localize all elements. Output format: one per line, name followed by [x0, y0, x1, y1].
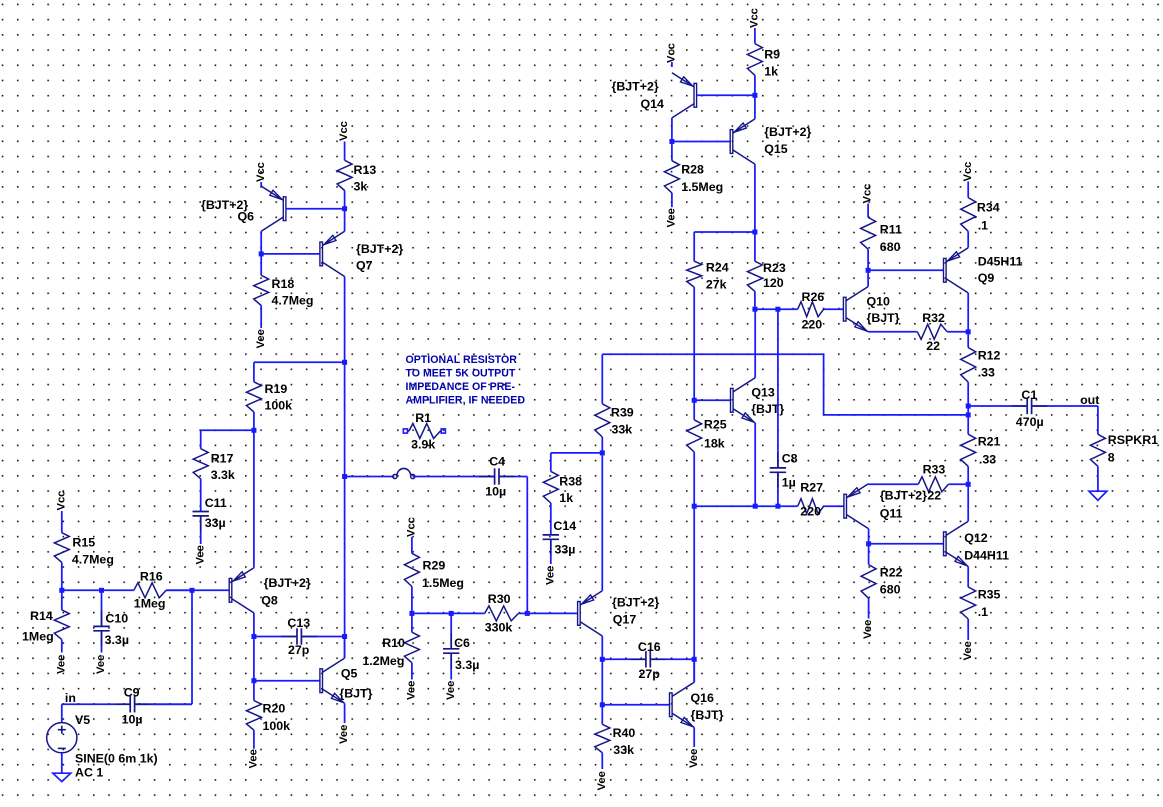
wire	[526, 477, 528, 614]
wire	[754, 164, 756, 232]
svg-text:27p: 27p	[639, 667, 661, 681]
svg-text:R27: R27	[800, 481, 823, 495]
wire	[601, 659, 603, 705]
svg-text:Vee: Vee	[666, 208, 678, 227]
svg-text:C14: C14	[553, 519, 576, 533]
resistor R14	[54, 590, 69, 652]
resistor R28	[664, 142, 679, 208]
svg-text:in: in	[65, 691, 76, 705]
svg-text:33µ: 33µ	[555, 543, 576, 557]
capacitor C13	[254, 628, 345, 644]
svg-text:Vee: Vee	[445, 681, 457, 700]
junction	[59, 588, 64, 593]
junction	[753, 504, 758, 509]
junction	[600, 702, 605, 707]
transistor Q7	[320, 231, 345, 276]
wire	[261, 253, 320, 255]
svg-text:1k: 1k	[559, 491, 573, 505]
junction	[251, 634, 256, 639]
svg-text:Q10: Q10	[867, 295, 891, 309]
wire	[286, 208, 345, 210]
wire	[602, 704, 669, 706]
resistor R19	[246, 362, 261, 430]
resistor R13	[337, 142, 352, 209]
resistor R26	[755, 302, 844, 317]
svg-text:{BJT+2}: {BJT+2}	[356, 242, 403, 256]
svg-text:3.9k: 3.9k	[411, 438, 435, 452]
svg-text:Q13: Q13	[751, 386, 775, 400]
wire	[754, 95, 756, 119]
svg-text:10µ: 10µ	[122, 713, 143, 727]
resistor R33	[869, 477, 969, 492]
wire	[967, 406, 969, 415]
junction	[669, 139, 674, 144]
svg-text:3.3µ: 3.3µ	[105, 633, 129, 647]
transistor Q6	[261, 186, 286, 231]
resistor R9	[747, 28, 762, 95]
svg-text:R32: R32	[922, 311, 945, 325]
svg-text:Q14: Q14	[641, 97, 665, 111]
resistor R38	[543, 453, 558, 535]
resistor R17	[193, 430, 208, 511]
svg-text:100k: 100k	[263, 719, 291, 733]
svg-text:R15: R15	[72, 536, 95, 550]
transistor Q12	[944, 521, 969, 566]
svg-text:{BJT}: {BJT}	[751, 402, 784, 416]
svg-text:C9: C9	[124, 686, 140, 700]
wire	[62, 589, 134, 591]
resistor R34	[961, 182, 976, 248]
svg-text:{BJT+2}: {BJT+2}	[612, 80, 659, 94]
resistor R39	[595, 354, 610, 453]
junction	[752, 230, 757, 235]
svg-text:1Meg: 1Meg	[134, 597, 166, 611]
svg-text:R28: R28	[681, 163, 704, 177]
wire	[166, 589, 229, 591]
svg-text:220: 220	[802, 318, 823, 332]
svg-text:18k: 18k	[704, 437, 725, 451]
wire	[868, 269, 943, 271]
svg-text:3.3k: 3.3k	[211, 468, 235, 482]
svg-text:R26: R26	[802, 290, 825, 304]
resistor RSPKR1	[1090, 434, 1105, 491]
wire	[602, 353, 823, 355]
wire	[201, 429, 254, 431]
wire	[254, 680, 320, 682]
wire	[260, 231, 262, 254]
svg-text:Q17: Q17	[613, 613, 637, 627]
resistor R29	[404, 537, 419, 613]
svg-text:220: 220	[800, 505, 821, 519]
junction	[966, 329, 971, 334]
wire	[868, 529, 870, 544]
wire	[601, 636, 603, 659]
wire	[413, 476, 494, 478]
svg-text:R33: R33	[923, 463, 946, 477]
svg-text:D44H11: D44H11	[964, 549, 1009, 563]
svg-text:R23: R23	[763, 261, 786, 275]
svg-text:R38: R38	[559, 475, 582, 489]
wire	[694, 231, 755, 233]
svg-text:22: 22	[927, 489, 941, 503]
wire	[693, 659, 695, 682]
svg-text:1.5Meg: 1.5Meg	[681, 180, 723, 194]
comment text (optional resistor note)	[406, 354, 526, 407]
svg-text:out: out	[1080, 393, 1099, 407]
capacitor C1	[968, 398, 1098, 414]
svg-text:27p: 27p	[288, 643, 310, 657]
svg-text:{BJT+2}: {BJT+2}	[880, 489, 927, 503]
svg-text:Q5: Q5	[341, 667, 358, 681]
svg-text:R24: R24	[706, 261, 729, 275]
svg-text:V5: V5	[75, 713, 90, 727]
ground (RSPKR1)	[1089, 491, 1107, 500]
svg-text:1.2Meg: 1.2Meg	[362, 654, 404, 668]
svg-text:4.7Meg: 4.7Meg	[72, 553, 114, 567]
svg-text:Q15: Q15	[764, 142, 788, 156]
svg-text:R39: R39	[611, 406, 634, 420]
svg-text:Vcc: Vcc	[55, 491, 67, 511]
svg-text:680: 680	[880, 583, 901, 597]
svg-text:Vee: Vee	[406, 681, 418, 700]
svg-text:R35: R35	[978, 588, 1001, 602]
capacitor C6	[443, 613, 459, 679]
junction	[775, 307, 780, 312]
svg-text:.33: .33	[979, 453, 996, 467]
transistor Q14	[672, 73, 697, 118]
transistor Q13	[731, 378, 756, 423]
svg-text:3k: 3k	[354, 180, 368, 194]
svg-text:Vee: Vee	[596, 771, 608, 790]
svg-text:4.7Meg: 4.7Meg	[272, 294, 314, 308]
junction	[525, 611, 530, 616]
svg-text:R20: R20	[263, 702, 286, 716]
svg-text:C1: C1	[1021, 388, 1037, 402]
svg-text:33k: 33k	[612, 423, 633, 437]
svg-text:33k: 33k	[613, 743, 634, 757]
junction	[752, 93, 757, 98]
svg-text:C11: C11	[205, 496, 227, 510]
svg-text:AMPLIFIER, IF NEEDED: AMPLIFIER, IF NEEDED	[406, 395, 526, 407]
svg-text:R30: R30	[488, 592, 511, 606]
svg-text:R22: R22	[880, 566, 903, 580]
svg-text:680: 680	[880, 240, 901, 254]
svg-text:Vcc: Vcc	[962, 162, 974, 182]
junction	[966, 412, 971, 417]
svg-text:R40: R40	[613, 726, 636, 740]
wire	[697, 94, 755, 96]
wire	[61, 511, 63, 533]
ground (V5)	[53, 773, 71, 781]
wire	[254, 361, 345, 363]
wire	[61, 704, 63, 723]
svg-text:Vee: Vee	[338, 725, 350, 744]
svg-text:10µ: 10µ	[485, 485, 506, 499]
resistor R32	[868, 324, 968, 339]
svg-text:{BJT}: {BJT}	[867, 311, 900, 325]
svg-text:R21: R21	[978, 435, 1001, 449]
svg-text:.1: .1	[978, 219, 988, 233]
wire	[693, 287, 695, 420]
wire hop (optional resistor jumper)	[393, 474, 397, 478]
svg-text:C6: C6	[454, 636, 470, 650]
svg-text:100k: 100k	[265, 399, 293, 413]
svg-text:R17: R17	[211, 452, 234, 466]
svg-text:8: 8	[1108, 451, 1115, 465]
svg-text:Vcc: Vcc	[338, 121, 350, 141]
junction	[342, 634, 347, 639]
wire	[344, 277, 346, 363]
wire	[344, 637, 346, 659]
svg-text:Vee: Vee	[962, 641, 974, 660]
wire	[869, 543, 944, 545]
svg-text:R12: R12	[978, 349, 1001, 363]
junction	[692, 504, 697, 509]
svg-text:Vee: Vee	[55, 655, 67, 674]
resistor R40	[595, 705, 610, 769]
svg-text:SINE(0 6m 1k): SINE(0 6m 1k)	[75, 752, 158, 766]
svg-text:{BJT+2}: {BJT+2}	[764, 125, 811, 139]
svg-text:R11: R11	[880, 223, 902, 237]
svg-text:Vcc: Vcc	[666, 43, 678, 63]
wire	[260, 182, 262, 187]
junction	[752, 307, 757, 312]
resistor R22	[861, 544, 876, 619]
wire	[61, 753, 63, 773]
transistor Q8	[229, 568, 254, 613]
svg-text:R25: R25	[704, 418, 727, 432]
svg-text:R29: R29	[423, 559, 446, 573]
wire	[412, 612, 451, 614]
wire	[671, 118, 673, 142]
junction	[342, 360, 347, 365]
junction	[409, 611, 414, 616]
wire	[671, 62, 673, 67]
svg-text:RSPKR1: RSPKR1	[1108, 433, 1158, 447]
junction	[692, 657, 697, 662]
resistor R10	[404, 613, 419, 679]
resistor R18	[254, 254, 269, 328]
svg-text:{BJT}: {BJT}	[339, 687, 372, 701]
junction	[99, 588, 104, 593]
svg-text:C4: C4	[489, 455, 505, 469]
svg-text:{BJT}: {BJT}	[691, 708, 724, 722]
wire	[253, 613, 255, 681]
junction	[190, 588, 195, 593]
resistor R30	[451, 606, 527, 621]
svg-text:C10: C10	[105, 612, 128, 626]
svg-text:D45H11: D45H11	[978, 255, 1023, 269]
transistor Q10	[843, 287, 868, 332]
wire	[551, 452, 603, 454]
svg-text:27k: 27k	[706, 278, 727, 292]
wire	[693, 727, 695, 747]
junction	[342, 206, 347, 211]
junction	[600, 657, 605, 662]
resistor R15	[54, 533, 69, 591]
svg-text:R19: R19	[265, 382, 288, 396]
wire	[754, 309, 756, 378]
wire	[967, 566, 969, 587]
svg-text:120: 120	[763, 276, 784, 290]
wire	[754, 423, 756, 506]
wire	[345, 476, 395, 478]
wire	[967, 484, 969, 521]
svg-text:Vee: Vee	[688, 749, 700, 768]
svg-text:C16: C16	[638, 640, 661, 654]
svg-text:Q8: Q8	[261, 594, 278, 608]
svg-text:C8: C8	[782, 452, 798, 466]
resistor R1 (floating)	[403, 424, 445, 439]
junction	[775, 504, 780, 509]
wire	[135, 703, 192, 705]
transistor Q5	[320, 658, 345, 703]
svg-text:1.5Meg: 1.5Meg	[422, 576, 464, 590]
svg-text:Vcc: Vcc	[406, 517, 418, 537]
capacitor C9	[62, 696, 192, 712]
svg-text:{BJT+2}: {BJT+2}	[264, 576, 311, 590]
resistor R21	[961, 415, 976, 484]
capacitor C14	[543, 534, 559, 564]
junction	[866, 268, 871, 273]
resistor R24	[687, 232, 702, 287]
svg-text:.1: .1	[978, 605, 988, 619]
svg-text:Vee: Vee	[544, 566, 556, 585]
capacitor C16	[602, 651, 694, 667]
resistor R35	[961, 587, 976, 640]
svg-text:R16: R16	[140, 570, 163, 584]
wire	[601, 453, 603, 591]
resistor R20	[246, 681, 261, 749]
capacitor C8	[770, 309, 786, 506]
svg-text:1k: 1k	[764, 65, 778, 79]
svg-text:Vee: Vee	[95, 655, 107, 674]
transistor Q16	[670, 682, 695, 727]
svg-text:Q7: Q7	[356, 259, 373, 273]
svg-text:3.3µ: 3.3µ	[455, 658, 479, 672]
svg-text:R1: R1	[415, 411, 431, 425]
svg-text:Q6: Q6	[238, 210, 255, 224]
svg-text:330k: 330k	[485, 621, 513, 635]
wire	[253, 430, 255, 567]
svg-text:TO MEET 5K OUTPUT: TO MEET 5K OUTPUT	[406, 368, 516, 380]
wire	[693, 452, 695, 682]
resistor R27	[694, 499, 844, 514]
resistor R12	[961, 332, 976, 406]
junction	[966, 404, 971, 409]
wire	[344, 703, 346, 723]
junction	[259, 251, 264, 256]
svg-text:C13: C13	[287, 616, 310, 630]
capacitor C11	[193, 511, 209, 545]
svg-text:Vcc: Vcc	[749, 8, 761, 28]
svg-text:Q9: Q9	[978, 271, 995, 285]
svg-text:470µ: 470µ	[1016, 415, 1044, 429]
wire	[344, 209, 346, 232]
svg-text:Q12: Q12	[964, 531, 988, 545]
svg-text:Vee: Vee	[255, 329, 267, 348]
resistor R16	[134, 583, 192, 598]
wire	[867, 270, 869, 286]
svg-text:Vee: Vee	[862, 620, 874, 639]
svg-text:R18: R18	[272, 277, 295, 291]
svg-text:Vee: Vee	[194, 545, 206, 564]
voltage source V5	[47, 723, 77, 753]
junction	[600, 450, 605, 455]
wire	[344, 362, 346, 658]
svg-text:Vee: Vee	[248, 749, 260, 768]
junction	[449, 611, 454, 616]
svg-text:R9: R9	[764, 48, 780, 62]
transistor Q15	[730, 119, 755, 164]
junction	[251, 678, 256, 683]
svg-text:.33: .33	[978, 366, 995, 380]
svg-text:R10: R10	[382, 636, 405, 650]
transistor Q17	[578, 591, 603, 636]
wire	[967, 293, 969, 332]
svg-text:R14: R14	[30, 609, 53, 623]
resistor R23	[747, 232, 762, 309]
wire	[191, 590, 193, 704]
transistor Q9	[944, 248, 969, 293]
wire	[823, 354, 825, 415]
svg-text:{BJT+2}: {BJT+2}	[612, 596, 659, 610]
svg-text:R13: R13	[354, 163, 377, 177]
svg-text:Q16: Q16	[691, 691, 715, 705]
wire	[672, 141, 730, 143]
svg-text:33µ: 33µ	[205, 516, 226, 530]
svg-text:Vcc: Vcc	[862, 184, 874, 204]
resistor R25	[687, 420, 702, 452]
capacitor C10	[93, 590, 109, 652]
svg-text:OPTIONAL RESISTOR: OPTIONAL RESISTOR	[406, 354, 518, 366]
capacitor C4	[477, 468, 528, 484]
wire	[694, 399, 730, 401]
junction	[342, 474, 347, 479]
wire	[527, 612, 577, 614]
junction	[966, 482, 971, 487]
junction	[866, 541, 871, 546]
wire	[1097, 406, 1099, 434]
svg-text:AC 1: AC 1	[75, 766, 103, 780]
resistor R11	[861, 204, 876, 271]
svg-text:IMPEDANCE OF PRE-: IMPEDANCE OF PRE-	[406, 381, 516, 393]
svg-text:Q11: Q11	[880, 507, 903, 521]
svg-text:1µ: 1µ	[782, 476, 796, 490]
svg-text:R34: R34	[977, 201, 1000, 215]
transistor Q11	[844, 484, 869, 529]
junction	[251, 428, 256, 433]
wire	[824, 414, 969, 416]
svg-text:Vcc: Vcc	[255, 162, 267, 182]
svg-text:1Meg: 1Meg	[22, 630, 54, 644]
junction	[692, 398, 697, 403]
svg-text:22: 22	[926, 339, 940, 353]
